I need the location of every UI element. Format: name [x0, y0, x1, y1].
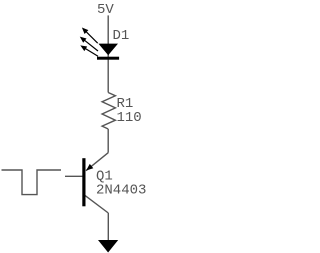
svg-text:2N4403: 2N4403 — [96, 183, 146, 199]
svg-text:D1: D1 — [113, 28, 130, 44]
svg-text:110: 110 — [117, 110, 142, 126]
svg-text:5V: 5V — [97, 2, 114, 18]
